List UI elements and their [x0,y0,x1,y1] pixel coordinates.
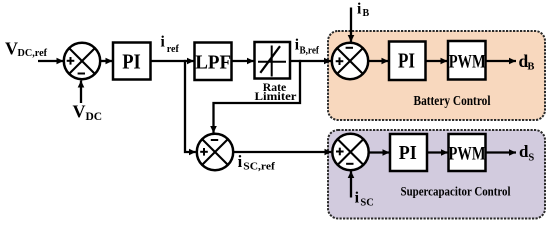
svg-text:PWM: PWM [449,52,486,73]
svg-text:SC,ref: SC,ref [243,161,275,172]
label V_DC,ref [5,39,47,60]
svg-text:Limiter: Limiter [255,89,298,103]
svg-text:PI: PI [122,49,141,73]
svg-text:V: V [73,102,86,122]
supercapacitor control region box [328,130,545,219]
block PI (supercap loop) U6 [390,134,427,171]
wire PI to LPF [151,60,194,62]
svg-text:B: B [527,62,534,73]
svg-text:V: V [5,39,18,59]
summing junction S1 (voltage error) [64,43,100,79]
label Rate Limiter [255,80,298,103]
label i_SC,ref [238,152,276,173]
summing junction S4 (supercap current error) [332,134,368,170]
svg-text:Supercapacitor Control: Supercapacitor Control [401,183,511,198]
label V_DC [73,102,103,124]
svg-text:PI: PI [398,49,415,73]
svg-text:i: i [161,34,166,51]
wire PWM battery output d_B [486,60,517,62]
label i_B,ref [295,37,320,57]
wire LPF to rate limiter [232,60,254,62]
svg-text:i: i [238,152,243,171]
wire S3 to PI battery [368,60,388,62]
svg-text:S: S [528,153,534,164]
wire S1 to PI voltage block [100,60,112,62]
block LPF U2 [195,43,232,81]
svg-text:B: B [363,8,370,19]
label i_ref [161,34,180,55]
svg-text:SC: SC [360,198,373,209]
svg-text:i: i [355,190,360,207]
svg-text:Battery Control: Battery Control [414,93,491,108]
wire S2 to supercap summing junction [233,151,331,153]
block rate limiter U3 [255,42,291,79]
svg-text:LPF: LPF [195,52,231,74]
label d_B [519,51,535,72]
wire branch i_B,ref to S2 top [214,60,301,133]
wire VDC feedback arrow up [80,81,82,104]
label i_B [357,0,370,19]
label d_S [519,142,534,164]
wire branch i_ref to S2 [185,60,196,152]
wire PI supercap to PWM supercap [427,151,448,153]
summing junction S2 (supercap reference) [197,134,233,170]
wire S4 to PI supercap [369,151,390,153]
block PI (voltage loop) U1 [113,43,151,80]
label i_SC [355,190,374,209]
svg-text:DC: DC [86,111,103,123]
svg-text:PI: PI [399,142,417,164]
wire PWM supercap output d_S [486,151,517,153]
block PI (battery loop) U4 [389,42,426,81]
wire i_B input arrow down [350,8,352,43]
wire VDC,ref input arrow [38,60,64,62]
wire PI battery to PWM battery [426,60,448,62]
svg-text:ref: ref [167,44,180,55]
block PWM (battery) U5 [448,41,486,80]
svg-text:PWM: PWM [449,144,486,165]
svg-text:B,ref: B,ref [300,46,320,57]
wire i_SC input arrow up [350,171,352,198]
wire rate limiter to battery summing junction [290,60,331,62]
battery control region box [328,31,545,120]
summing junction S3 (battery current error) [332,43,368,79]
svg-text:DC,ref: DC,ref [18,47,48,59]
svg-text:i: i [357,0,362,17]
block PWM (supercap) U7 [449,134,486,171]
